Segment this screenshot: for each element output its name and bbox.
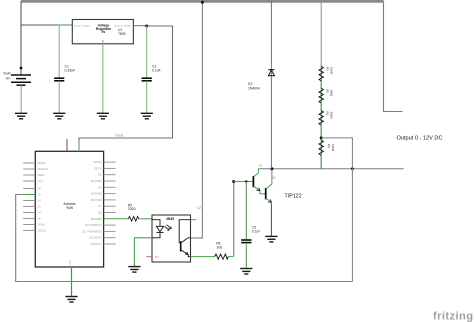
svg-text:10kΩ: 10kΩ (330, 67, 334, 75)
ground regulator (97, 113, 109, 119)
svg-text:1N4004: 1N4004 (248, 87, 260, 91)
svg-text:GND: GND (69, 260, 72, 266)
svg-text:VDDA: VDDA (38, 223, 46, 227)
svg-text:1kΩ: 1kΩ (216, 245, 222, 249)
resistor R5 220 (128, 217, 139, 222)
svg-text:D2: D2 (98, 173, 102, 177)
svg-text:TIP122: TIP122 (285, 194, 302, 200)
svg-text:output voltage: output voltage (114, 23, 132, 27)
resistor R1 10k (319, 66, 323, 81)
wire 5V to Arduino (79, 26, 173, 151)
svg-text:D13/SCK: D13/SCK (90, 242, 101, 246)
svg-text:D3 PWM: D3 PWM (91, 179, 103, 183)
svg-text:D6 PWM: D6 PWM (91, 198, 103, 202)
svg-text:D7: D7 (98, 204, 102, 208)
svg-text:0.1uF: 0.1uF (152, 69, 161, 73)
wire battery drop (20, 2, 22, 76)
battery BAT1 (11, 75, 31, 85)
ground battery (15, 113, 27, 119)
svg-text:10kΩ: 10kΩ (330, 89, 334, 97)
node collector D1 (270, 167, 273, 170)
capacitor C1 (58, 25, 60, 78)
svg-text:A2: A2 (38, 199, 42, 203)
pin top 5V (78, 141, 80, 151)
svg-text:5v: 5v (102, 30, 106, 34)
svg-text:Output 0 - 12V DC: Output 0 - 12V DC (397, 136, 443, 142)
svg-text:D8: D8 (98, 211, 102, 215)
wire R5 to opto (139, 218, 152, 220)
pin base red (191, 219, 197, 221)
node R3 R4 junction (320, 136, 323, 139)
svg-text:D1/TX: D1/TX (94, 166, 102, 170)
capacitor C2 (146, 26, 148, 78)
wire A1 long loop (16, 195, 353, 282)
svg-text:5w/in: 5w/in (4, 72, 12, 76)
resistor R6 1k (215, 254, 229, 259)
svg-text:fritzing: fritzing (433, 311, 473, 322)
voltage regulator U1 7805 (72, 20, 133, 44)
pin NC (147, 256, 153, 258)
svg-text:U2: U2 (197, 206, 201, 210)
wire D9 to R5 (104, 218, 129, 220)
wire collector bus (258, 168, 403, 170)
svg-text:Q1: Q1 (259, 163, 263, 167)
wire R6 to base drop (228, 256, 233, 258)
ground C2 (141, 113, 153, 119)
svg-text:D5 PWM: D5 PWM (91, 192, 103, 196)
wire opto cathode to ground (134, 238, 152, 267)
svg-text:A4: A4 (38, 211, 42, 215)
node battery junction (20, 67, 23, 70)
wire top 12V rail (21, 0, 384, 3)
wire opto emitter to R6 (191, 256, 215, 258)
ground Arduino (65, 297, 77, 303)
node regulator output junction (145, 25, 148, 28)
diode D1 1N4004 (270, 2, 272, 64)
svg-text:10kΩ: 10kΩ (331, 144, 335, 152)
labels Arduino left (38, 161, 49, 233)
opto phototransistor (179, 220, 190, 244)
svg-text:D9 PWM: D9 PWM (91, 217, 103, 221)
capacitor C3 (245, 182, 247, 240)
svg-text:220Ω: 220Ω (128, 207, 137, 211)
svg-text:7805: 7805 (118, 32, 126, 36)
wire base drop vertical (233, 182, 235, 257)
svg-text:D10 PWM/SS: D10 PWM/SS (85, 223, 102, 227)
svg-text:D1: D1 (248, 82, 252, 86)
pin stub top 3V3 (66, 139, 68, 151)
svg-text:0.1uF: 0.1uF (252, 230, 260, 234)
svg-text:AREF: AREF (38, 173, 46, 177)
ground opto (128, 267, 140, 273)
svg-text:VDDGL: VDDGL (38, 229, 48, 233)
resistor R2 10k (319, 88, 323, 103)
wire regulator output (133, 25, 146, 27)
pin A1 connected (23, 194, 35, 196)
wire base to Q1 (234, 181, 253, 183)
svg-text:A5: A5 (38, 217, 42, 221)
svg-text:R1: R1 (326, 67, 330, 71)
opto light arrows (165, 225, 172, 231)
svg-text:D4: D4 (98, 185, 102, 189)
svg-text:D12/MISO: D12/MISO (89, 236, 102, 240)
svg-text:RESET: RESET (38, 161, 47, 165)
svg-text:RESET2: RESET2 (38, 167, 49, 171)
svg-text:R3: R3 (326, 112, 330, 116)
pins Arduino right (104, 162, 116, 244)
resistor R3 10k (319, 111, 323, 126)
node collector at 352 (351, 167, 354, 170)
ground C1 (53, 113, 65, 119)
svg-text:YUN: YUN (66, 206, 73, 210)
wire Arduino ground (71, 267, 73, 296)
wire regulator ground (102, 40, 104, 113)
svg-text:A0: A0 (38, 187, 42, 191)
svg-text:A1: A1 (38, 193, 42, 197)
opto internal LED (152, 220, 164, 238)
ground C3 (240, 269, 252, 275)
resistor chain top lead (320, 2, 322, 65)
svg-text:10kΩ: 10kΩ (330, 112, 334, 120)
Arduino U3 box (35, 151, 103, 267)
wire tap to sense (321, 138, 352, 282)
node rail U2 junction (201, 1, 204, 4)
svg-text:4N35: 4N35 (166, 217, 174, 221)
svg-text:input voltage: input voltage (74, 23, 90, 27)
svg-text:D11 PWM/MOSI: D11 PWM/MOSI (82, 229, 102, 233)
svg-text:0.33uF: 0.33uF (65, 69, 76, 73)
svg-text:ioref: ioref (38, 179, 43, 183)
wire U2 collector feed (191, 237, 197, 239)
svg-text:R2: R2 (326, 89, 330, 93)
wire battery to ground (20, 85, 22, 113)
node base corner (232, 180, 235, 183)
node C3 tap (245, 180, 247, 182)
resistor R4 10k (319, 140, 323, 155)
wire input to regulator (21, 24, 58, 26)
svg-text:D0/RX: D0/RX (94, 160, 102, 164)
svg-text:Part1: Part1 (116, 133, 124, 137)
pins Arduino left (23, 163, 35, 231)
svg-text:-8V: -8V (5, 77, 11, 81)
ground Q2 emitter (265, 236, 277, 242)
optocoupler U2 4N35 box (152, 215, 191, 262)
labels Arduino right (82, 160, 102, 246)
svg-text:R4: R4 (327, 144, 331, 148)
svg-text:A3: A3 (38, 205, 42, 209)
wire output plus stub (384, 2, 403, 112)
